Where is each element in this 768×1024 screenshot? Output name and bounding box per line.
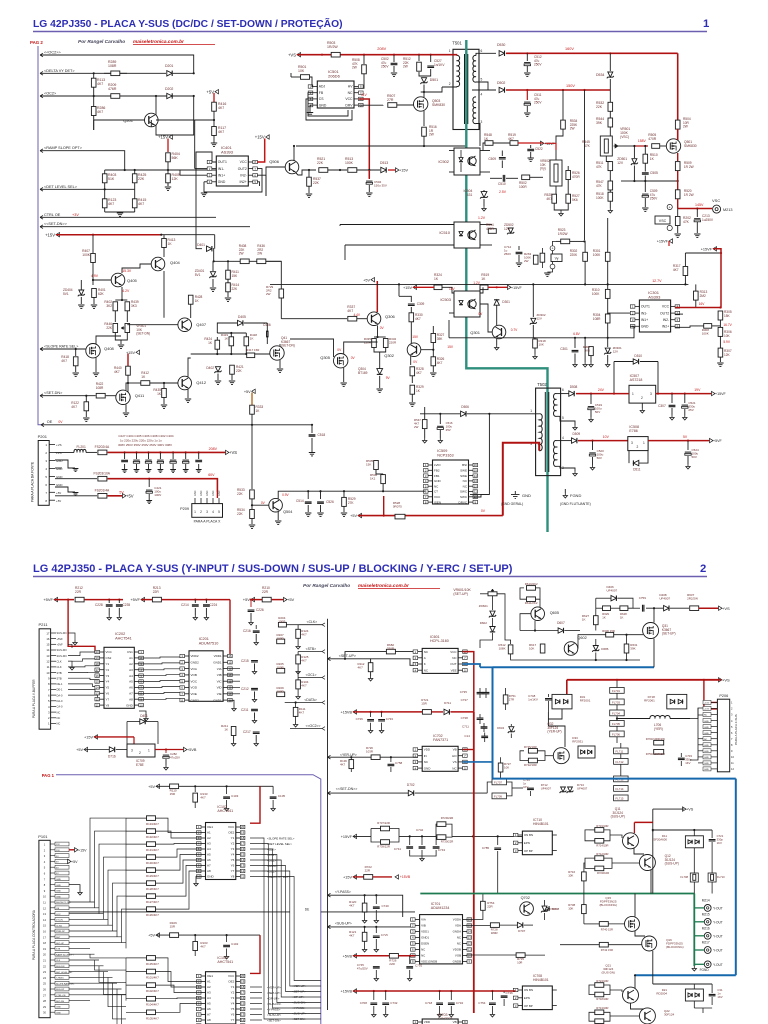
svg-text:C737: C737 xyxy=(461,698,469,702)
svg-text:ADUM7510: ADUM7510 xyxy=(199,641,219,645)
svg-text:VIB: VIB xyxy=(217,673,222,677)
wire q412 coll xyxy=(190,304,192,376)
capacitor C521 xyxy=(684,394,686,403)
svg-text:1u250V: 1u250V xyxy=(702,218,714,222)
svg-text:4K7: 4K7 xyxy=(415,317,421,321)
svg-text:A5: A5 xyxy=(129,680,133,684)
svg-text:(SET-UP): (SET-UP) xyxy=(453,592,468,596)
svg-text:OUT1: OUT1 xyxy=(218,160,227,164)
svg-text:16V: 16V xyxy=(699,302,706,306)
svg-text:GND: GND xyxy=(194,490,197,496)
resistor R722c xyxy=(364,875,373,880)
svg-text:M215: M215 xyxy=(702,913,710,917)
svg-text:14: 14 xyxy=(241,858,245,862)
wire +VS q31 xyxy=(699,607,721,609)
svg-text:16: 16 xyxy=(46,637,50,641)
svg-text:+15V: +15V xyxy=(255,135,265,140)
svg-text:A8: A8 xyxy=(207,869,211,873)
wire ic509 gnd xyxy=(420,481,428,505)
svg-text:C105: C105 xyxy=(278,794,286,798)
svg-text:VDD1: VDD1 xyxy=(421,930,429,934)
svg-text:<SUS-UP>: <SUS-UP> xyxy=(335,922,352,926)
svg-text:4K7: 4K7 xyxy=(114,370,120,374)
diode D501 zener xyxy=(419,72,424,76)
resistor R738 xyxy=(582,905,587,914)
node <RAMP SLOPE OPT> xyxy=(40,149,43,153)
svg-text:C214: C214 xyxy=(181,603,189,607)
wire ic601 out blue xyxy=(463,664,493,668)
svg-text:4K7: 4K7 xyxy=(218,130,224,134)
fuse FL711b xyxy=(614,748,629,754)
wire ic709 out xyxy=(155,749,186,751)
svg-text:LVIO: LVIO xyxy=(434,463,441,467)
svg-text:100R: 100R xyxy=(519,185,527,189)
fuse FL705 xyxy=(610,721,625,727)
svg-text:R104/4K7: R104/4K7 xyxy=(146,1003,159,1007)
svg-text:VCC: VCC xyxy=(662,305,670,309)
svg-text:+5V: +5V xyxy=(56,491,61,495)
wire +5V red xyxy=(108,495,125,497)
svg-text:R131/4K7: R131/4K7 xyxy=(146,848,159,852)
wire zd bus xyxy=(634,180,677,182)
svg-text:Q408: Q408 xyxy=(104,346,115,351)
svg-text:GND: GND xyxy=(424,766,432,770)
ground vy block xyxy=(547,269,552,272)
resistor R722b xyxy=(528,758,537,763)
svg-text:FL705: FL705 xyxy=(612,722,620,726)
capacitor C235 xyxy=(118,600,120,603)
svg-text:A: A xyxy=(424,656,426,660)
resistor R204 xyxy=(278,622,286,627)
jumper Vy plus xyxy=(550,246,555,251)
svg-text:Y-OUT: Y-OUT xyxy=(713,963,723,967)
resistor R414 xyxy=(227,279,229,283)
resistor R422 xyxy=(96,393,105,398)
svg-text:LG 42PJ350 - PLACA Y-SUS (DC/D: LG 42PJ350 - PLACA Y-SUS (DC/DC / SET-DO… xyxy=(33,17,343,30)
svg-text:C526: C526 xyxy=(326,500,334,504)
svg-text:<SLOPE RATE SEL>: <SLOPE RATE SEL> xyxy=(44,345,78,349)
diode D401 xyxy=(207,246,212,251)
svg-text:Y6: Y6 xyxy=(106,692,110,696)
wire t502 sec pins xyxy=(557,393,570,395)
blue frame right xyxy=(493,778,736,780)
trimmer VR501 xyxy=(600,136,612,156)
resistor R324 xyxy=(434,285,442,290)
svg-text:VOE: VOE xyxy=(191,692,197,696)
svg-text:4K7: 4K7 xyxy=(508,137,514,141)
svg-text:1K: 1K xyxy=(582,618,586,622)
svg-text:D607: D607 xyxy=(557,621,565,625)
ground FGND p2 xyxy=(692,966,696,971)
svg-text:Q602: Q602 xyxy=(577,636,586,640)
svg-text:VOA: VOA xyxy=(191,667,197,671)
svg-text:DET: DET xyxy=(56,937,61,939)
svg-text:IN1+: IN1+ xyxy=(218,173,225,177)
svg-text:+5V: +5V xyxy=(350,514,357,518)
svg-text:FL701: FL701 xyxy=(612,689,620,693)
svg-text:FL711: FL711 xyxy=(616,749,624,753)
svg-text:ON BN: ON BN xyxy=(524,988,533,992)
svg-text:GND: GND xyxy=(704,751,709,753)
resistor R508 xyxy=(363,55,365,64)
wire q405 collector xyxy=(122,264,151,273)
resistor R301 xyxy=(607,218,609,252)
svg-text:VOD: VOD xyxy=(191,686,198,690)
mosfet Q411 xyxy=(116,390,130,404)
svg-text:R718/10R: R718/10R xyxy=(596,997,608,1001)
svg-text:D530: D530 xyxy=(497,43,505,47)
svg-text:Y-OUT: Y-OUT xyxy=(713,907,723,911)
svg-text:(Vy): (Vy) xyxy=(540,167,546,171)
resistor R729 xyxy=(279,289,284,298)
svg-text:(YER-UP): (YER-UP) xyxy=(547,730,561,734)
svg-text:15V: 15V xyxy=(412,335,419,339)
wire ic601 vcc red xyxy=(463,652,474,712)
svg-text:(GND GERAL): (GND GERAL) xyxy=(501,502,523,506)
wire det level xyxy=(40,188,135,190)
svg-text:EPN: EPN xyxy=(524,996,530,1000)
module D11 xyxy=(685,836,703,848)
svg-text:4K7: 4K7 xyxy=(301,633,307,637)
svg-text:FL706: FL706 xyxy=(612,732,620,736)
capacitor C524 xyxy=(687,441,689,450)
resistor R617 xyxy=(540,644,545,653)
svg-text:100K: 100K xyxy=(82,253,91,257)
svg-text:2W: 2W xyxy=(352,66,357,70)
svg-text:4.2V: 4.2V xyxy=(122,289,130,293)
capacitor C736m xyxy=(370,712,372,717)
wire 145V xyxy=(678,208,712,210)
svg-text:+VS: +VS xyxy=(722,606,730,611)
svg-text:C738: C738 xyxy=(461,716,469,720)
transistor Q11 xyxy=(623,833,639,849)
svg-text:A4: A4 xyxy=(207,847,211,851)
svg-text:Y3: Y3 xyxy=(231,847,235,851)
svg-text:22K: 22K xyxy=(237,492,244,496)
svg-text:GND: GND xyxy=(704,763,709,765)
wire p206 gnd bus xyxy=(698,714,703,716)
resistor R440 xyxy=(126,366,131,375)
svg-text:D686: D686 xyxy=(601,647,609,651)
svg-text:R130/4K7: R130/4K7 xyxy=(146,861,159,865)
svg-text:<YER-UP>: <YER-UP> xyxy=(340,753,357,757)
svg-text:100R: 100R xyxy=(277,690,285,694)
svg-text:C103: C103 xyxy=(231,794,239,798)
svg-text:4K7: 4K7 xyxy=(546,197,552,201)
svg-text:AS7218: AS7218 xyxy=(630,378,643,382)
svg-text:OUT2: OUT2 xyxy=(238,167,247,171)
svg-text:<OC2>: <OC2> xyxy=(44,92,57,96)
resistor R212 xyxy=(75,597,84,602)
wire t501 sec xyxy=(476,53,496,55)
svg-text:GND: GND xyxy=(56,891,61,893)
svg-text:14: 14 xyxy=(46,648,50,652)
svg-text:<SET-UP>: <SET-UP> xyxy=(292,990,306,994)
svg-text:Y4: Y4 xyxy=(106,680,110,684)
svg-text:100R: 100R xyxy=(278,620,286,624)
capacitor bank xyxy=(124,451,126,453)
resistor R307b xyxy=(719,336,721,348)
wire t502 p3 red xyxy=(503,443,539,516)
svg-text:GND1: GND1 xyxy=(213,661,222,665)
svg-text:160V: 160V xyxy=(565,47,574,51)
svg-text:SET-UP: SET-UP xyxy=(56,943,64,945)
svg-text:<DET LEVEL SEL>: <DET LEVEL SEL> xyxy=(267,842,292,846)
resistor R332 xyxy=(383,339,388,348)
svg-text:C743: C743 xyxy=(438,848,446,852)
node <<SET-DN>> xyxy=(40,225,43,229)
svg-text:VDD: VDD xyxy=(424,748,431,752)
fuse FL709c xyxy=(690,873,698,882)
svg-text:SWE: SWE xyxy=(460,474,467,478)
resistor R526 xyxy=(567,166,569,170)
wire signal bus vertical xyxy=(327,619,329,1010)
svg-text:180R: 180R xyxy=(491,931,498,935)
ic IC709 E78E xyxy=(127,744,155,757)
svg-text:Q506: Q506 xyxy=(269,159,280,164)
svg-text:RF2931: RF2931 xyxy=(572,740,583,744)
resistor R304 xyxy=(607,312,609,315)
svg-text:HO: HO xyxy=(452,754,457,758)
svg-text:0R075: 0R075 xyxy=(393,505,402,509)
wire r521-r513 xyxy=(328,169,347,171)
svg-text:22R: 22R xyxy=(389,962,395,966)
svg-text:+15V: +15V xyxy=(45,232,55,237)
svg-text:D501: D501 xyxy=(430,78,438,82)
blue bus right xyxy=(480,666,493,668)
svg-text:<SLOPE RATE SEL>: <SLOPE RATE SEL> xyxy=(267,836,295,840)
resistor R120 xyxy=(364,895,366,902)
title underline xyxy=(33,31,707,33)
svg-text:13: 13 xyxy=(46,654,50,658)
resistor R210 xyxy=(262,597,271,602)
resistor R425 xyxy=(134,170,136,189)
wire OC2 top xyxy=(40,55,194,73)
svg-text:1K1: 1K1 xyxy=(370,477,376,481)
resistor R113 xyxy=(93,73,95,96)
resistor R209 xyxy=(277,692,285,697)
svg-text:Q301: Q301 xyxy=(470,330,481,335)
svg-text:GND: GND xyxy=(56,896,61,898)
svg-text:VID: VID xyxy=(217,686,223,690)
transistor Q12 xyxy=(639,855,655,871)
svg-text:<OP-UP>: <OP-UP> xyxy=(267,996,280,1000)
capacitor C749 xyxy=(527,788,534,789)
svg-text:220R: 220R xyxy=(389,341,397,345)
wire q201 emitter xyxy=(156,96,194,135)
transistor Q412 xyxy=(178,376,192,390)
resistor R408 xyxy=(240,259,249,264)
svg-text:(BLOCKING): (BLOCKING) xyxy=(666,945,684,949)
mosfet Q31 xyxy=(643,623,659,639)
svg-text:VCC: VCC xyxy=(240,160,248,164)
svg-text:4K7: 4K7 xyxy=(416,371,422,375)
svg-text:VCC: VCC xyxy=(434,495,441,499)
svg-text:24V: 24V xyxy=(598,388,605,392)
resistor R516 xyxy=(422,127,427,136)
diode D401b xyxy=(140,719,145,724)
node <SET-DN> xyxy=(40,394,43,398)
resistor R428 xyxy=(190,290,192,295)
svg-text:IN1-: IN1- xyxy=(218,167,224,171)
svg-text:250V: 250V xyxy=(650,197,658,201)
svg-text:C227 C204 C205 C206 C208 C202: C227 C204 C205 C206 C208 C202 C204 xyxy=(118,434,174,438)
svg-text:(SET-DN): (SET-DN) xyxy=(281,344,295,348)
resistor R110 xyxy=(170,784,179,789)
svg-text:C301: C301 xyxy=(560,347,568,351)
wire q408 source xyxy=(95,358,97,373)
svg-text:A3: A3 xyxy=(207,842,211,846)
wire ic401 inputs xyxy=(195,168,207,170)
svg-text:STB: STB xyxy=(56,949,61,951)
box Vy xyxy=(551,254,562,262)
svg-text:158V: 158V xyxy=(638,139,647,143)
transistor Q302 xyxy=(407,343,421,357)
resistor R520 xyxy=(675,190,680,199)
svg-text:R719/10R: R719/10R xyxy=(596,824,608,828)
wire q21 chain xyxy=(631,1003,645,1009)
resistor R740 xyxy=(599,922,608,927)
wire q503 source xyxy=(423,111,425,126)
resistor R202 xyxy=(677,209,679,217)
resistor R413 xyxy=(163,235,165,239)
wire d506 xyxy=(420,413,460,415)
svg-text:C740: C740 xyxy=(382,904,390,908)
capacitor C307 xyxy=(671,394,673,403)
svg-text:10: 10 xyxy=(46,671,50,675)
resistor R534 xyxy=(562,90,564,120)
diode D602 xyxy=(492,618,494,626)
svg-text:56K: 56K xyxy=(172,156,179,160)
svg-text:VB: VB xyxy=(453,1020,457,1024)
svg-text:22R: 22R xyxy=(75,590,82,594)
svg-text:12K: 12K xyxy=(724,353,731,357)
wire oc2 xyxy=(40,95,194,97)
capacitor C509b xyxy=(644,181,646,192)
power +15V p101 xyxy=(69,849,76,851)
svg-text:C215: C215 xyxy=(241,659,249,663)
capacitor C216 xyxy=(255,625,257,629)
svg-text:2W: 2W xyxy=(403,65,408,69)
resistor R125 xyxy=(296,655,301,664)
wire 354 bus xyxy=(191,353,270,355)
svg-text:250V: 250V xyxy=(534,63,542,67)
module D21 xyxy=(685,989,703,1001)
svg-text:39K: 39K xyxy=(596,121,603,125)
svg-text:0.7V: 0.7V xyxy=(511,328,518,332)
svg-text:VSC: VSC xyxy=(659,219,667,223)
output labels ic103 xyxy=(250,986,262,988)
svg-text:Q302: Q302 xyxy=(384,353,395,358)
svg-text:+5V: +5V xyxy=(243,597,251,602)
svg-text:25V: 25V xyxy=(688,408,693,412)
resistor R627 xyxy=(594,616,599,625)
svg-text:2: 2 xyxy=(641,396,643,400)
wire to right xyxy=(266,261,281,289)
wire ic503 right top xyxy=(480,287,483,293)
svg-text:17: 17 xyxy=(96,668,100,672)
transistor Q404 xyxy=(151,257,165,271)
svg-text:GND: GND xyxy=(704,721,709,723)
svg-text:SUS-DN: SUS-DN xyxy=(57,654,67,658)
svg-text:ADJ: ADJ xyxy=(319,85,326,89)
zener ZD601 xyxy=(492,596,494,610)
capacitor C701 xyxy=(409,956,411,964)
svg-text:M213: M213 xyxy=(723,208,733,212)
resistor R725 xyxy=(528,749,537,754)
svg-text:18: 18 xyxy=(96,662,100,666)
pag1 bracket xyxy=(56,775,321,1024)
wire q405 emitter xyxy=(121,287,123,300)
resistor R424 xyxy=(204,344,210,346)
wire q506 base xyxy=(266,167,285,196)
svg-text:GND: GND xyxy=(56,1012,61,1014)
svg-text:C522: C522 xyxy=(535,147,543,151)
wire ic501 left plumbing xyxy=(308,93,348,116)
svg-text:Y2: Y2 xyxy=(106,668,110,672)
svg-text:<OC1>: <OC1> xyxy=(306,673,317,677)
svg-text:1: 1 xyxy=(632,392,634,396)
svg-text:PWR-DP: PWR-DP xyxy=(56,931,65,933)
wire q15-q16 chain xyxy=(635,931,649,938)
resistor R728 xyxy=(490,923,499,928)
ground ic201 xyxy=(228,700,234,706)
ground ic102 xyxy=(196,877,201,882)
resistor R317 xyxy=(684,253,686,266)
svg-text:20: 20 xyxy=(96,650,100,654)
svg-text:A6: A6 xyxy=(207,858,211,862)
svg-text:1K: 1K xyxy=(250,337,254,341)
resistor R519b xyxy=(510,141,518,146)
resistor R716 xyxy=(582,872,587,881)
capacitor C718 xyxy=(439,991,441,1000)
resistor R546 xyxy=(435,407,437,419)
svg-text:NCP3163: NCP3163 xyxy=(437,453,453,457)
svg-text:+VS: +VS xyxy=(686,808,694,812)
svg-text:OE1: OE1 xyxy=(207,825,213,829)
svg-text:4K7: 4K7 xyxy=(349,934,355,938)
svg-text:4K7: 4K7 xyxy=(437,361,443,365)
resistor R703 xyxy=(654,740,664,745)
svg-text:+VS: +VS xyxy=(722,677,730,682)
svg-text:FL715: FL715 xyxy=(616,796,624,800)
ground FGND symbol xyxy=(563,493,567,498)
svg-text:100K: 100K xyxy=(345,161,354,165)
wire q410 gate xyxy=(255,354,270,356)
svg-text:ON BN: ON BN xyxy=(524,833,533,837)
transistor Q506 xyxy=(285,160,299,174)
svg-text:13: 13 xyxy=(241,1013,245,1017)
resistor R611 xyxy=(527,597,536,602)
svg-text:PARA A PLACA DA FONTE: PARA A PLACA DA FONTE xyxy=(31,461,35,502)
capacitor C737 xyxy=(483,692,490,693)
resistor R117 xyxy=(212,127,217,136)
svg-text:NC: NC xyxy=(457,942,461,946)
svg-text:3K3: 3K3 xyxy=(131,304,137,308)
resistor R303 xyxy=(590,338,592,346)
svg-text:11: 11 xyxy=(474,490,477,494)
svg-text:NC: NC xyxy=(57,722,61,726)
fuse FS203 xyxy=(98,476,107,481)
wire 160V red xyxy=(506,52,678,54)
svg-text:Y6: Y6 xyxy=(231,1013,235,1017)
capacitor C758b xyxy=(390,757,392,762)
svg-text:IC509: IC509 xyxy=(437,449,447,453)
svg-text:C701: C701 xyxy=(415,963,423,967)
resistor R537 xyxy=(308,170,310,177)
svg-text:FL707: FL707 xyxy=(494,780,502,784)
wire vs drop left xyxy=(566,680,568,694)
